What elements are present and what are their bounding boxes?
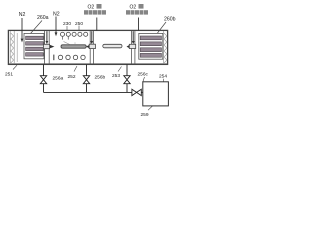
- svg-text:N2: N2: [53, 11, 60, 17]
- svg-text:251: 251: [5, 72, 13, 78]
- svg-text:259: 259: [141, 112, 149, 118]
- svg-text:250: 250: [75, 21, 83, 27]
- svg-text:230: 230: [63, 21, 71, 27]
- svg-text:O2: O2: [130, 5, 137, 11]
- svg-text:N2: N2: [19, 12, 26, 18]
- svg-text:256c: 256c: [138, 71, 149, 77]
- svg-text:256a: 256a: [53, 76, 64, 82]
- svg-text:252: 252: [68, 74, 76, 80]
- svg-text:260a: 260a: [37, 15, 49, 21]
- svg-text:253: 253: [112, 73, 120, 79]
- svg-text:260b: 260b: [164, 16, 176, 22]
- svg-text:O2: O2: [88, 5, 95, 11]
- svg-text:254: 254: [159, 73, 167, 79]
- svg-text:256b: 256b: [95, 75, 106, 81]
